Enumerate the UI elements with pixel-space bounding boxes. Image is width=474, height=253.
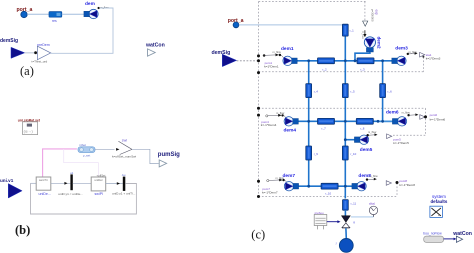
- svg-text:dem6: dem6: [386, 110, 399, 116]
- svg-text:m_flow: m_flow: [369, 174, 377, 178]
- resistor res: [49, 12, 62, 18]
- label system defaults: [431, 194, 448, 204]
- svg-text:uniD.y1 + uniTl...: uniD.y1 + uniTl...: [112, 192, 135, 196]
- source uni.v1: [8, 184, 22, 198]
- svg-text:samTri: samTri: [39, 178, 48, 182]
- source demSig (a): [11, 47, 25, 58]
- svg-text:k=-1*Dem6: k=-1*Dem6: [430, 117, 446, 121]
- valve hourglass: [341, 216, 350, 228]
- svg-text:r_6: r_6: [387, 89, 392, 93]
- boundary bou_noFlow: [424, 236, 444, 242]
- switch pom5: [367, 133, 378, 136]
- wire swi to pumSig: [132, 149, 159, 163]
- switch pom4: [266, 114, 287, 119]
- dashed pom5 link: [393, 134, 426, 136]
- wire row3: [297, 185, 354, 187]
- svg-text:demSig: demSig: [0, 38, 18, 44]
- left drop column: [308, 61, 310, 186]
- dashed partition 2: [259, 107, 426, 109]
- svg-text:bou_noFlow: bou_noFlow: [423, 232, 442, 236]
- svg-text:r_1: r_1: [350, 29, 355, 33]
- svg-text:(b): (b): [15, 223, 30, 237]
- wire uniDel to bar1: [51, 182, 71, 184]
- svg-text:defaults: defaults: [431, 199, 448, 204]
- pump dem4: [284, 117, 298, 126]
- output pumSig: [159, 160, 166, 167]
- output watCon (a): [148, 49, 156, 56]
- svg-text:rHel: rHel: [369, 202, 375, 206]
- svg-text:y_set: y_set: [83, 154, 90, 158]
- block swiPI: [91, 177, 106, 191]
- wire pink mSet to uniDel: [43, 149, 77, 177]
- wire port_a to r_1: [239, 24, 345, 26]
- svg-text:k=1*Dem1: k=1*Dem1: [264, 65, 279, 69]
- svg-text:dem2: dem2: [376, 37, 381, 49]
- resistor r_1: [342, 24, 348, 36]
- gain pom5: [387, 134, 392, 139]
- svg-text:k=-1*Dem8: k=-1*Dem8: [399, 183, 415, 187]
- feedback wire loop: [31, 183, 137, 214]
- svg-text:preDem: preDem: [37, 43, 50, 47]
- arrow into bar2: [117, 182, 120, 185]
- pump dem2: [364, 37, 375, 52]
- pump dem5: [354, 135, 368, 144]
- dashed pom8 drop: [396, 183, 398, 197]
- sensor rel: [369, 202, 378, 217]
- gain pom8: [386, 181, 391, 186]
- comparator bar2: [123, 177, 126, 191]
- switch swi: [116, 141, 132, 154]
- pin pom6: [424, 115, 427, 118]
- svg-text:pumSig: pumSig: [158, 152, 180, 158]
- svg-text:(a): (a): [20, 64, 34, 78]
- boundary exp: [363, 21, 368, 26]
- resistor r_7: [318, 118, 335, 124]
- wire demSig to firstOrder: [25, 52, 37, 54]
- dashed boundary left: [258, 2, 260, 197]
- pump dem7: [284, 182, 298, 191]
- svg-text:dem7: dem7: [283, 173, 296, 179]
- svg-text:dem3: dem3: [395, 45, 408, 51]
- resistor r_10v: [342, 146, 348, 160]
- svg-text:watCon: watCon: [145, 42, 165, 48]
- svg-text:uni.v1: uni.v1: [0, 178, 14, 183]
- svg-text:m_flow: m_flow: [361, 31, 364, 39]
- switch pom6: [407, 113, 418, 116]
- svg-text:p=300000: p=300000: [370, 9, 374, 22]
- wire faint branch: [64, 149, 99, 177]
- svg-text:m_flow: m_flow: [368, 130, 376, 134]
- output watCon (c): [456, 236, 462, 242]
- gain sta1: [420, 52, 425, 57]
- resistor r_11: [343, 200, 349, 211]
- pump dem6: [392, 117, 406, 126]
- wire row2: [297, 120, 394, 122]
- wire bou to watCon: [444, 238, 457, 241]
- svg-text:r_4: r_4: [314, 89, 319, 93]
- block system: [430, 206, 443, 217]
- wire row1: [296, 60, 395, 62]
- svg-text:k=offSet_numSwi: k=offSet_numSwi: [112, 155, 136, 159]
- comparator bar1: [70, 174, 72, 190]
- wire preSou arrow: [327, 220, 341, 223]
- dashed partition 3: [259, 196, 398, 198]
- port port_a (c): [233, 22, 239, 28]
- dashed sta1 drop: [422, 57, 424, 72]
- right drop column: [382, 61, 384, 122]
- switch sta1: [407, 52, 418, 55]
- svg-text:r_2: r_2: [322, 67, 327, 71]
- bus junction dots: [257, 54, 260, 198]
- dashed pom6 drop: [425, 108, 427, 135]
- pin pom8: [396, 181, 399, 184]
- svg-text:r_11: r_11: [351, 202, 357, 206]
- block firstOrder: [37, 46, 50, 60]
- block preSou: [314, 211, 327, 229]
- pump dem: [84, 9, 98, 18]
- port port_a: [21, 11, 27, 17]
- svg-text:k=-1*Dem5: k=-1*Dem5: [393, 141, 409, 145]
- svg-text:r_9: r_9: [314, 152, 319, 156]
- dashed partition 1: [259, 71, 424, 73]
- svg-text:k=-1*Dem4: k=-1*Dem4: [261, 123, 277, 127]
- pin m_flow_in of dem: [98, 6, 109, 10]
- dashed drop to exp: [364, 2, 366, 22]
- arrow into bar1: [64, 182, 67, 185]
- wire res to dem: [62, 13, 87, 15]
- pump dem3: [392, 56, 406, 65]
- block sigRat sampler: [23, 122, 38, 135]
- wire dem5 branch: [345, 139, 355, 141]
- resistor r_8: [356, 118, 373, 124]
- svg-text:swiPI: swiPI: [95, 192, 104, 196]
- wire r_11 to valve: [344, 210, 346, 216]
- dashed boundary top: [259, 1, 367, 3]
- resistor r_6: [380, 84, 386, 98]
- wire into uniDel: [31, 182, 37, 184]
- wire bar1 to swiPI: [73, 182, 91, 184]
- arrow m_flow into dem2: [361, 30, 367, 39]
- svg-text:dem4: dem4: [284, 128, 297, 134]
- svg-text:uniDel: uniDel: [95, 178, 103, 182]
- svg-text:r_7: r_7: [321, 127, 326, 131]
- svg-text:k=1*Dem3: k=1*Dem3: [426, 57, 441, 61]
- resistor r_5: [342, 84, 348, 98]
- main column: [344, 36, 346, 198]
- wire mSet to swi: [95, 148, 115, 150]
- svg-text:Au: Au: [122, 173, 126, 177]
- svg-text:res: res: [52, 19, 57, 23]
- svg-text:watCon: watCon: [452, 231, 472, 237]
- switch pom7: [267, 179, 288, 184]
- source demSig (c): [222, 54, 236, 66]
- wire valve to sink: [345, 228, 347, 239]
- svg-text:swi: swi: [122, 138, 127, 142]
- block mSet: [78, 143, 95, 157]
- svg-text:(c): (c): [251, 228, 265, 242]
- svg-text:dem5: dem5: [360, 147, 373, 153]
- svg-text:m_flow: m_flow: [276, 111, 284, 115]
- wire firstOrder output to dem control input: [51, 8, 113, 53]
- resistor r_9: [306, 146, 312, 160]
- wire swiPI to bar2: [106, 183, 123, 185]
- junction dots: [307, 59, 384, 187]
- svg-text:(◎→): (◎→): [24, 130, 33, 134]
- wire valve to rel: [351, 216, 374, 218]
- resistor r_3: [357, 58, 374, 64]
- wire port_a to res: [27, 13, 49, 15]
- resistor r_4: [306, 84, 312, 98]
- svg-text:t=Tfirst_ord: t=Tfirst_ord: [32, 59, 48, 63]
- svg-text:k=-1*Dem7: k=-1*Dem7: [262, 190, 278, 194]
- svg-text:r_10: r_10: [350, 152, 356, 156]
- junction dot: [34, 51, 37, 54]
- wire demSig to bus: [237, 60, 259, 62]
- boundary sink: [339, 239, 353, 253]
- switch pom8: [366, 178, 377, 181]
- svg-text:r_10: r_10: [325, 191, 331, 195]
- block uniDel: [36, 177, 51, 190]
- svg-text:uniDe...: uniDe...: [39, 192, 51, 196]
- pump dem8: [352, 182, 366, 191]
- wire dem2 jog: [355, 52, 370, 61]
- svg-text:uniD.y1 < uniDe...: uniD.y1 < uniDe...: [58, 192, 83, 196]
- pin sta1: [422, 56, 424, 58]
- svg-text:dem: dem: [85, 1, 95, 7]
- gain pom6: [420, 115, 425, 120]
- resistor r_2: [318, 58, 335, 64]
- svg-text:r_5: r_5: [350, 89, 355, 93]
- svg-text:m_flow: m_flow: [273, 50, 281, 54]
- svg-text:demSig: demSig: [212, 50, 231, 56]
- resistor r_10: [321, 183, 338, 189]
- pump dem1: [283, 56, 297, 65]
- svg-text:r_8: r_8: [360, 127, 365, 131]
- svg-text:r_3: r_3: [360, 67, 365, 71]
- svg-text:dem1: dem1: [281, 46, 294, 52]
- label exp: [370, 9, 378, 22]
- switch pom1: [263, 54, 284, 59]
